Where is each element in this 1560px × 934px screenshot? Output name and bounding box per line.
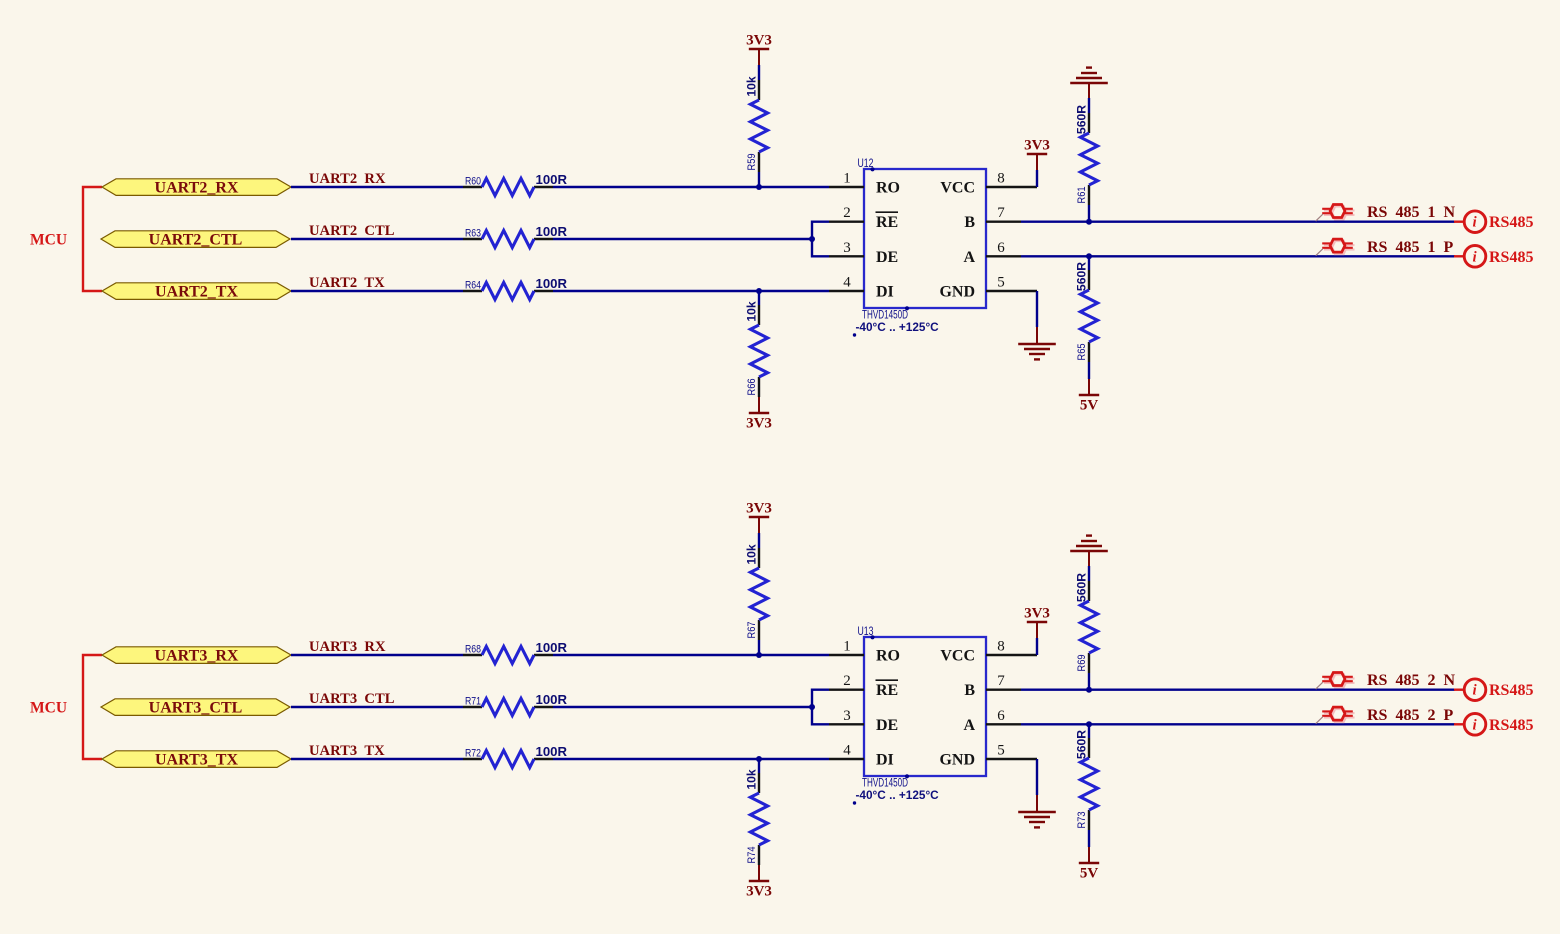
svg-text:100R: 100R: [536, 276, 568, 291]
svg-text:R73: R73: [1076, 812, 1088, 829]
svg-text:R67: R67: [746, 622, 758, 639]
junction R66/TX: [756, 288, 762, 294]
wire UART2_TX row: [291, 290, 463, 292]
power port 3V3 (VCC pin 8): [1036, 638, 1038, 655]
svg-text:2: 2: [843, 673, 851, 689]
svg-text:8: 8: [997, 171, 1005, 187]
svg-text:3V3: 3V3: [746, 33, 772, 49]
resistor R69 560R: [1075, 573, 1098, 673]
svg-text:UART3 CTL: UART3 CTL: [309, 691, 395, 707]
svg-text:RS 485 1 N: RS 485 1 N: [1367, 204, 1455, 221]
resistor R72 100R: [463, 744, 568, 767]
svg-text:6: 6: [997, 240, 1005, 256]
junction R59/RX: [756, 184, 762, 190]
wire 3V3 to R59: [758, 65, 760, 80]
resistor R74 10k: [745, 769, 768, 865]
svg-text:3V3: 3V3: [746, 501, 772, 517]
power port 3V3 (VCC pin 8): [1036, 170, 1038, 187]
pin 6 A: [963, 240, 1021, 266]
svg-text:100R: 100R: [536, 744, 568, 759]
svg-text:DI: DI: [876, 284, 894, 301]
svg-text:UART2_CTL: UART2_CTL: [149, 231, 243, 248]
svg-text:B: B: [964, 682, 975, 699]
svg-text:100R: 100R: [536, 692, 568, 707]
wire UART2_CTL row: [291, 238, 463, 240]
svg-text:RS485: RS485: [1489, 717, 1533, 734]
svg-text:7: 7: [997, 673, 1005, 689]
wire A net to R65: [1088, 256, 1090, 270]
svg-text:560R: 560R: [1075, 262, 1089, 291]
op-amp/transceiver U13 THVD1450D: [853, 624, 986, 805]
wire B to RS 485 2 N: [1021, 689, 1455, 691]
resistor R73 560R: [1075, 730, 1098, 830]
wire A to RS 485 2 P: [1021, 723, 1455, 725]
svg-text:3V3: 3V3: [746, 416, 772, 432]
harness port RS485 (RS 485 1 P): [1454, 245, 1533, 267]
svg-text:-40°C .. +125°C: -40°C .. +125°C: [856, 788, 940, 802]
svg-text:10k: 10k: [745, 76, 759, 97]
svg-text:R68: R68: [465, 643, 481, 655]
junction CTL bracket: [809, 236, 815, 242]
power port 3V3 (top pull-up): [749, 48, 769, 51]
port UART2_RX: [102, 179, 291, 196]
svg-text:5V: 5V: [1080, 398, 1099, 414]
svg-text:1: 1: [843, 639, 851, 655]
resistor R67 10k: [745, 544, 768, 640]
svg-text:8: 8: [997, 639, 1005, 655]
wire UART3_CTL row: [291, 706, 463, 708]
wire UART2_RX row: [291, 186, 463, 188]
resistor R61 560R: [1075, 105, 1098, 205]
svg-text:560R: 560R: [1075, 573, 1089, 602]
pin 5 GND: [939, 275, 1037, 301]
wire R61 to B net: [1088, 205, 1090, 222]
svg-text:RS485: RS485: [1489, 214, 1533, 231]
resistor R63 100R: [463, 224, 568, 247]
power port 3V3 (top pull-up): [749, 516, 769, 519]
pin 7 B: [964, 673, 1021, 699]
svg-text:UART3_TX: UART3_TX: [155, 751, 238, 768]
svg-text:R61: R61: [1076, 187, 1088, 204]
wire B to RS 485 1 N: [1021, 220, 1455, 222]
svg-text:100R: 100R: [536, 224, 568, 239]
earth ground (top of R61): [1070, 82, 1108, 85]
svg-text:DE: DE: [876, 717, 898, 734]
wire TX to pin 4: [553, 290, 829, 292]
port UART2_TX: [102, 283, 291, 300]
differential pair directive (RS 485 2 P): [1324, 709, 1355, 722]
svg-text:RS 485 2 P: RS 485 2 P: [1367, 707, 1453, 724]
op-amp/transceiver U12 THVD1450D: [853, 156, 986, 337]
harness port RS485 (RS 485 2 N): [1454, 679, 1533, 701]
svg-text:DI: DI: [876, 752, 894, 769]
svg-text:DE: DE: [876, 249, 898, 266]
pin 4 DI: [829, 743, 894, 769]
svg-text:GND: GND: [939, 284, 975, 301]
svg-text:RS485: RS485: [1489, 682, 1533, 699]
power port 5V (bottom of R65): [1088, 362, 1090, 379]
resistor R64 100R: [463, 276, 568, 299]
svg-text:GND: GND: [939, 752, 975, 769]
ground (pin 5): [1036, 759, 1038, 795]
port UART2_CTL: [101, 231, 290, 248]
pin 3 DE: [829, 708, 898, 734]
pin 5 GND: [939, 743, 1037, 769]
junction R69/B: [1086, 687, 1092, 693]
differential pair directive (RS 485 1 N): [1324, 206, 1355, 219]
svg-text:R59: R59: [746, 154, 758, 171]
junction CTL bracket: [809, 704, 815, 710]
pin 2 RE: [829, 673, 898, 699]
svg-text:4: 4: [843, 743, 851, 759]
svg-text:7: 7: [997, 205, 1005, 221]
svg-text:UART2 TX: UART2 TX: [309, 275, 385, 291]
wire RX to pin 1: [553, 654, 829, 656]
wire R59 to RX net: [758, 172, 760, 187]
svg-text:UART3 RX: UART3 RX: [309, 639, 386, 655]
wire 3V3 to R67: [758, 533, 760, 548]
svg-text:5: 5: [997, 275, 1005, 291]
svg-text:10k: 10k: [745, 769, 759, 790]
svg-text:10k: 10k: [745, 544, 759, 565]
power port 3V3 (bottom): [758, 865, 760, 881]
svg-text:RO: RO: [876, 648, 900, 665]
svg-text:4: 4: [843, 275, 851, 291]
MCU harness wire (red bracket): [83, 187, 102, 291]
svg-text:2: 2: [843, 205, 851, 221]
svg-text:100R: 100R: [536, 172, 568, 187]
wire TX net to R74: [758, 759, 760, 773]
wire A net to R73: [1088, 724, 1090, 738]
svg-text:RS 485 1 P: RS 485 1 P: [1367, 239, 1453, 256]
svg-text:VCC: VCC: [940, 648, 975, 665]
pin 3 DE: [829, 240, 898, 266]
junction R73/A: [1086, 721, 1092, 727]
resistor R71 100R: [463, 692, 568, 715]
pin 6 A: [963, 708, 1021, 734]
resistor R66 10k: [745, 301, 768, 397]
svg-text:-40°C .. +125°C: -40°C .. +125°C: [856, 320, 940, 334]
svg-text:3V3: 3V3: [1024, 606, 1050, 622]
svg-text:R65: R65: [1076, 344, 1088, 361]
wire TX to pin 4: [553, 758, 829, 760]
svg-text:R69: R69: [1076, 655, 1088, 672]
resistor R68 100R: [463, 640, 568, 663]
svg-text:R71: R71: [465, 695, 481, 707]
port UART3_CTL: [101, 699, 290, 716]
svg-text:VCC: VCC: [940, 180, 975, 197]
pin 4 DI: [829, 275, 894, 301]
svg-text:3V3: 3V3: [746, 884, 772, 900]
svg-text:6: 6: [997, 708, 1005, 724]
svg-text:3V3: 3V3: [1024, 138, 1050, 154]
resistor R65 560R: [1075, 262, 1098, 362]
svg-text:RE: RE: [876, 682, 898, 699]
pin 8 VCC: [940, 171, 1037, 197]
harness port RS485 (RS 485 1 N): [1454, 211, 1533, 233]
svg-text:R64: R64: [465, 279, 481, 291]
svg-text:MCU: MCU: [30, 700, 67, 717]
wire earth to R61: [1088, 83, 1090, 99]
svg-text:UART2 RX: UART2 RX: [309, 171, 386, 187]
svg-text:R72: R72: [465, 747, 481, 759]
svg-text:5V: 5V: [1080, 866, 1099, 882]
pin 1 RO: [829, 639, 900, 665]
wire TX net to R66: [758, 291, 760, 305]
pin 8 VCC: [940, 639, 1037, 665]
svg-text:RO: RO: [876, 180, 900, 197]
svg-text:UART3_RX: UART3_RX: [155, 647, 239, 664]
port UART3_TX: [102, 751, 291, 768]
ground (pin 5): [1036, 291, 1038, 327]
svg-text:R74: R74: [746, 847, 758, 864]
wire earth to R69: [1088, 551, 1090, 567]
resistor R59 10k: [745, 76, 768, 172]
svg-text:1: 1: [843, 171, 851, 187]
junction R61/B: [1086, 219, 1092, 225]
svg-text:MCU: MCU: [30, 232, 67, 249]
svg-text:UART2 CTL: UART2 CTL: [309, 223, 395, 239]
harness port RS485 (RS 485 2 P): [1454, 714, 1533, 736]
svg-text:560R: 560R: [1075, 105, 1089, 134]
svg-text:B: B: [964, 214, 975, 231]
earth ground (top of R69): [1070, 550, 1108, 553]
wire R69 to B net: [1088, 673, 1090, 690]
wire R67 to RX net: [758, 640, 760, 655]
svg-text:UART2_RX: UART2_RX: [155, 179, 239, 196]
svg-text:UART3_CTL: UART3_CTL: [149, 699, 243, 716]
MCU harness wire (red bracket): [83, 655, 102, 759]
pin 2 RE: [829, 205, 898, 231]
svg-text:10k: 10k: [745, 301, 759, 322]
svg-text:A: A: [963, 249, 975, 266]
wire bracket to pins 2,3: [812, 690, 829, 725]
resistor R60 100R: [463, 172, 568, 195]
port UART3_RX: [102, 647, 291, 664]
svg-text:UART3 TX: UART3 TX: [309, 743, 385, 759]
differential pair directive (RS 485 2 N): [1324, 674, 1355, 687]
svg-text:560R: 560R: [1075, 730, 1089, 759]
power port 3V3 (bottom): [758, 397, 760, 413]
svg-text:R63: R63: [465, 227, 481, 239]
wire RX to pin 1: [553, 186, 829, 188]
svg-text:100R: 100R: [536, 640, 568, 655]
svg-text:3: 3: [843, 240, 851, 256]
junction R74/TX: [756, 756, 762, 762]
wire CTL to RE/DE bracket: [553, 238, 812, 240]
junction R65/A: [1086, 253, 1092, 259]
svg-text:RS485: RS485: [1489, 249, 1533, 266]
svg-text:RE: RE: [876, 214, 898, 231]
svg-text:UART2_TX: UART2_TX: [155, 283, 238, 300]
pin 7 B: [964, 205, 1021, 231]
wire A to RS 485 1 P: [1021, 255, 1455, 257]
junction R67/RX: [756, 652, 762, 658]
svg-text:R66: R66: [746, 379, 758, 396]
svg-text:5: 5: [997, 743, 1005, 759]
wire bracket to pins 2,3: [812, 222, 829, 257]
svg-text:RS 485 2 N: RS 485 2 N: [1367, 672, 1455, 689]
differential pair directive (RS 485 1 P): [1324, 241, 1355, 254]
wire UART3_RX row: [291, 654, 463, 656]
wire CTL to RE/DE bracket: [553, 706, 812, 708]
pin 1 RO: [829, 171, 900, 197]
svg-text:3: 3: [843, 708, 851, 724]
power port 5V (bottom of R73): [1088, 830, 1090, 847]
svg-text:A: A: [963, 717, 975, 734]
svg-text:R60: R60: [465, 175, 481, 187]
wire UART3_TX row: [291, 758, 463, 760]
